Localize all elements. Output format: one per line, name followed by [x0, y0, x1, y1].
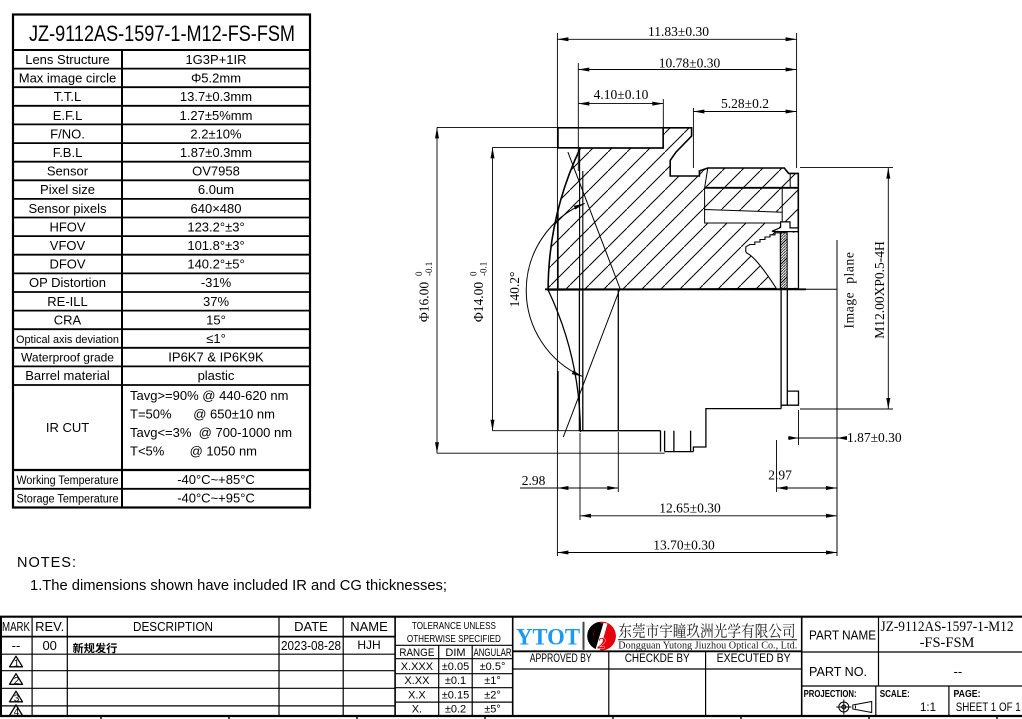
svg-text:1.27±5%mm: 1.27±5%mm: [180, 108, 253, 123]
svg-text:HFOV: HFOV: [49, 219, 85, 234]
svg-text:Storage Temperature: Storage Temperature: [17, 494, 119, 506]
dimension 12.65+-0.30: [580, 501, 837, 518]
spec table frame: [13, 15, 310, 508]
revision triangles: [10, 656, 23, 715]
projection / scale / page: [804, 688, 981, 700]
svg-text:PART NAME: PART NAME: [809, 629, 876, 643]
svg-text:--: --: [12, 638, 21, 653]
svg-text:DESCRIPTION: DESCRIPTION: [133, 619, 213, 634]
svg-text:15°: 15°: [206, 312, 226, 327]
svg-text:1: 1: [14, 659, 20, 670]
svg-text:±1°: ±1°: [484, 675, 501, 687]
dimension 13.70+-0.30 total length: [557, 538, 837, 555]
svg-text:-0.1: -0.1: [424, 262, 434, 276]
svg-text:EXECUTED BY: EXECUTED BY: [717, 653, 791, 665]
dimension 11.83+-0.30: [557, 24, 796, 41]
svg-text:101.8°±3°: 101.8°±3°: [187, 238, 244, 253]
svg-text:±2°: ±2°: [484, 690, 501, 702]
svg-text:2.2±10%: 2.2±10%: [190, 126, 242, 141]
svg-text:-40°C~+85°C: -40°C~+85°C: [177, 472, 255, 487]
extension line front face: [556, 33, 558, 556]
svg-text:140.2°±5°: 140.2°±5°: [187, 257, 244, 272]
extension line flange rear: [662, 99, 664, 128]
logo circle: [587, 622, 616, 653]
svg-text:CRA: CRA: [54, 312, 82, 327]
svg-text:E.F.L: E.F.L: [53, 108, 83, 123]
svg-text:TOLERANCE UNLESS: TOLERANCE UNLESS: [412, 620, 496, 632]
svg-text:T=50% @ 650±10 nm: T=50% @ 650±10 nm: [130, 407, 275, 422]
svg-text:123.2°±3°: 123.2°±3°: [187, 219, 244, 234]
svg-text:PART NO.: PART NO.: [809, 665, 867, 679]
dimension dia 16.00 0/-0.1: [414, 127, 665, 453]
svg-text:Lens Structure: Lens Structure: [25, 52, 110, 67]
svg-text:±0.5°: ±0.5°: [480, 661, 506, 673]
svg-text:F/NO.: F/NO.: [50, 126, 85, 141]
dimension 2.98: [520, 432, 618, 520]
svg-text:4: 4: [14, 707, 20, 718]
svg-text:00: 00: [42, 638, 56, 653]
svg-text:X.: X.: [412, 704, 422, 716]
svg-text:-FS-FSM: -FS-FSM: [920, 635, 975, 651]
svg-text:CHECKDE BY: CHECKDE BY: [625, 653, 690, 665]
svg-text:Sensor pixels: Sensor pixels: [28, 201, 107, 216]
svg-text:640×480: 640×480: [191, 201, 242, 216]
part name area: [809, 629, 876, 680]
svg-text:140.2°: 140.2°: [507, 272, 522, 308]
thread band separator: [705, 187, 799, 189]
svg-text:±0.05: ±0.05: [442, 661, 469, 673]
extension line flange front: [577, 63, 579, 171]
svg-text:X.X: X.X: [408, 690, 426, 702]
svg-text:≤1°: ≤1°: [206, 331, 226, 346]
notes: [17, 555, 447, 594]
part name area lines: [802, 651, 1022, 653]
svg-text:-31%: -31%: [201, 275, 232, 290]
svg-text:DATE: DATE: [294, 619, 328, 634]
extension line thread start: [692, 108, 694, 168]
svg-text:VFOV: VFOV: [50, 238, 86, 253]
dimension 10.78+-0.30: [578, 56, 796, 72]
spec table text: [16, 21, 295, 506]
svg-text:2.97: 2.97: [768, 468, 792, 483]
title block frame: [0, 617, 1022, 719]
svg-text:2.98: 2.98: [522, 473, 546, 488]
svg-text:Optical axis deviation: Optical axis deviation: [16, 334, 119, 346]
svg-text:DIM: DIM: [445, 647, 465, 659]
svg-text:PAGE:: PAGE:: [954, 688, 981, 700]
svg-text:Tavg>=90% @ 440-620 nm: Tavg>=90% @ 440-620 nm: [130, 388, 288, 403]
front flange white band: [558, 128, 663, 148]
svg-text:6.0um: 6.0um: [198, 182, 234, 197]
svg-text:OV7958: OV7958: [192, 164, 240, 179]
svg-text:NAME: NAME: [350, 619, 388, 634]
tolerance table lines: [512, 617, 514, 716]
svg-text:X.XX: X.XX: [404, 675, 430, 687]
svg-text:Sensor: Sensor: [47, 164, 89, 179]
svg-text:NOTES:: NOTES:: [17, 555, 77, 571]
lens barrel section (hatched top half): [548, 128, 798, 290]
dimension 2.97: [768, 440, 837, 492]
approval headers: [530, 653, 791, 665]
dimension 1.87+-0.30 flange back length: [788, 410, 902, 445]
svg-text:Pixel size: Pixel size: [40, 182, 95, 197]
tolerance table text: [399, 620, 511, 716]
bore edge lines: [579, 148, 581, 290]
company/approval lines: [513, 650, 802, 652]
rear air gap white: [787, 233, 798, 288]
company name: [619, 623, 795, 638]
bottom half outside view: [558, 290, 799, 452]
svg-text:0: 0: [469, 271, 479, 276]
svg-text:1:1: 1:1: [920, 702, 936, 714]
svg-text:5.28±0.2: 5.28±0.2: [721, 96, 769, 111]
svg-text:JZ-9112AS-1597-1-M12-FS-FSM: JZ-9112AS-1597-1-M12-FS-FSM: [29, 21, 295, 46]
extension line barrel rear: [796, 33, 798, 168]
revision table lines: [0, 636, 395, 638]
IR filter strip (dense hatch): [780, 233, 787, 289]
front face line: [557, 209, 559, 290]
svg-text:PROJECTION:: PROJECTION:: [804, 688, 857, 700]
rear pocket white: [705, 210, 783, 224]
svg-text:11.83±0.30: 11.83±0.30: [648, 24, 709, 39]
svg-text:MARK: MARK: [2, 619, 30, 634]
projection symbol: [836, 700, 871, 715]
svg-text:2: 2: [14, 676, 20, 687]
svg-text:1.The dimensions shown have in: 1.The dimensions shown have included IR …: [30, 578, 447, 594]
FOV ray lines: [568, 152, 620, 288]
centerline: [545, 288, 806, 290]
dimension 4.10+-0.10: [578, 87, 663, 106]
svg-text:Image plane: Image plane: [842, 252, 857, 329]
svg-text:HJH: HJH: [357, 638, 380, 652]
svg-text:-0.1: -0.1: [479, 262, 489, 276]
svg-text:±0.2: ±0.2: [445, 704, 466, 716]
svg-text:10.78±0.30: 10.78±0.30: [659, 56, 721, 71]
svg-text:37%: 37%: [203, 294, 229, 309]
svg-text:T.T.L: T.T.L: [54, 89, 81, 104]
svg-text:0: 0: [414, 271, 424, 276]
svg-text:Waterproof grade: Waterproof grade: [21, 351, 114, 365]
svg-text:SCALE:: SCALE:: [880, 688, 910, 700]
image plane extension line lower: [836, 289, 838, 556]
svg-text:13.7±0.3mm: 13.7±0.3mm: [180, 89, 252, 104]
svg-text:4.10±0.10: 4.10±0.10: [594, 87, 649, 102]
svg-text:YTOT: YTOT: [516, 625, 580, 650]
svg-text:IR CUT: IR CUT: [46, 420, 89, 435]
revision table text: [2, 619, 388, 653]
dimension 5.28+-0.2: [693, 96, 796, 114]
image plane line: [836, 240, 838, 556]
svg-text:--: --: [954, 664, 963, 679]
svg-text:Φ14.00: Φ14.00: [471, 282, 486, 322]
svg-text:APPROVED BY: APPROVED BY: [530, 653, 592, 665]
svg-text:T<5% @ 1050 nm: T<5% @ 1050 nm: [130, 444, 257, 459]
svg-text:M12.00XP0.5-4H: M12.00XP0.5-4H: [872, 241, 887, 339]
dimension dia 14.00 0/-0.1: [469, 147, 581, 430]
svg-text:F.B.L: F.B.L: [53, 145, 83, 160]
svg-text:OTHERWISE SPECIFIED: OTHERWISE SPECIFIED: [407, 633, 501, 645]
svg-text:3: 3: [14, 694, 20, 705]
svg-text:RANGE: RANGE: [399, 647, 434, 659]
svg-text:IP6K7 & IP6K9K: IP6K7 & IP6K9K: [168, 350, 264, 365]
svg-text:±5°: ±5°: [484, 704, 501, 716]
svg-text:Max image circle: Max image circle: [19, 71, 117, 86]
svg-text:1.87±0.30: 1.87±0.30: [847, 430, 902, 445]
svg-text:Φ16.00: Φ16.00: [417, 282, 432, 322]
svg-text:RE-ILL: RE-ILL: [47, 294, 87, 309]
cone pocket white: [746, 233, 781, 289]
svg-text:Working Temperature: Working Temperature: [17, 475, 119, 487]
svg-text:2023-08-28: 2023-08-28: [281, 639, 341, 653]
svg-text:1.87±0.3mm: 1.87±0.3mm: [180, 145, 252, 160]
svg-text:ANGULAR: ANGULAR: [474, 647, 512, 659]
svg-text:Barrel material: Barrel material: [25, 368, 110, 383]
svg-text:SHEET 1 OF 1: SHEET 1 OF 1: [956, 702, 1021, 714]
svg-text:2: 2: [597, 636, 606, 653]
bottom edge tick marks: [101, 716, 997, 719]
lens front surface arc lower half: [548, 290, 580, 432]
dimension M12.00XP0.5-4H thread: [800, 168, 893, 409]
svg-text:OP Distortion: OP Distortion: [29, 275, 106, 290]
svg-text:JZ-9112AS-1597-1-M12: JZ-9112AS-1597-1-M12: [881, 619, 1014, 635]
svg-text:Dongguan Yutong Jiuzhou Optica: Dongguan Yutong Jiuzhou Optical Co., Ltd…: [618, 641, 797, 652]
svg-text:Φ5.2mm: Φ5.2mm: [191, 71, 241, 86]
svg-text:plastic: plastic: [198, 368, 235, 383]
retaining clip bracket: [772, 222, 798, 232]
svg-text:1G3P+1IR: 1G3P+1IR: [185, 52, 246, 67]
svg-text:13.70±0.30: 13.70±0.30: [653, 538, 715, 553]
svg-text:REV.: REV.: [35, 619, 64, 634]
FOV angle arc: [526, 203, 584, 376]
svg-text:±0.1: ±0.1: [445, 675, 466, 687]
svg-text:±0.15: ±0.15: [442, 690, 469, 702]
svg-text:X.XXX: X.XXX: [401, 661, 434, 673]
svg-text:-40°C~+95°C: -40°C~+95°C: [177, 491, 255, 506]
svg-text:Tavg<=3% @ 700-1000 nm: Tavg<=3% @ 700-1000 nm: [130, 425, 292, 440]
svg-text:DFOV: DFOV: [49, 257, 85, 272]
svg-text:12.65±0.30: 12.65±0.30: [659, 501, 721, 516]
